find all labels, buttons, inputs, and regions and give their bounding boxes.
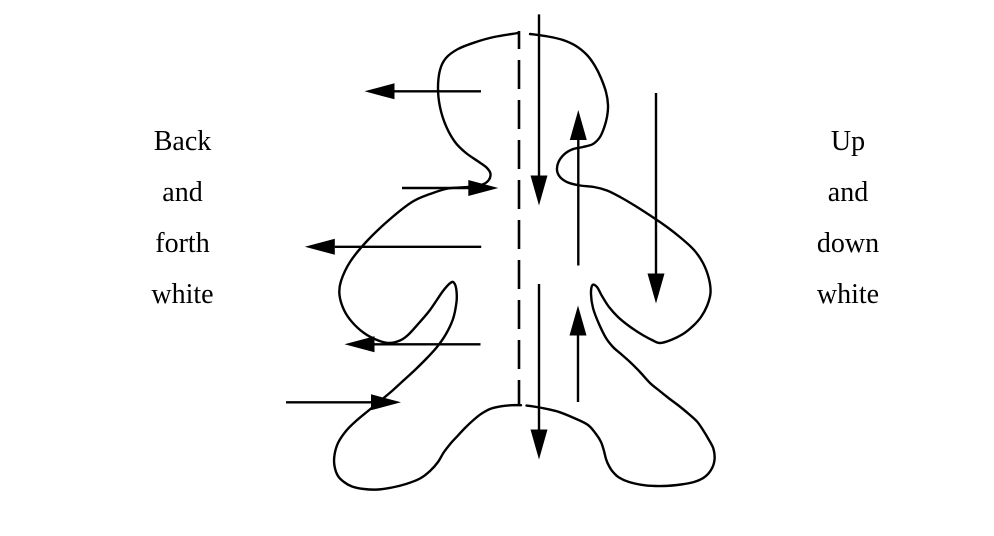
svg-text:down: down: [817, 228, 879, 259]
dashed midline: [518, 31, 521, 406]
arrow U1 up x=578: [570, 110, 587, 266]
svg-text:forth: forth: [155, 228, 209, 259]
svg-text:white: white: [151, 279, 213, 310]
arrow D1 down x=539: [531, 14, 548, 205]
figure outline right part: [527, 34, 715, 486]
svg-text:white: white: [817, 279, 879, 310]
svg-text:Up: Up: [831, 126, 865, 157]
arrow U2 up x=578: [570, 306, 587, 403]
arrow A2 right y=188: [402, 180, 498, 196]
arrow A4 left y=344.3: [345, 336, 481, 352]
arrow A1 left y=91: [365, 83, 482, 99]
svg-text:and: and: [828, 177, 868, 208]
figure outline: [334, 33, 521, 490]
arrow D3 down x=656: [648, 93, 665, 304]
svg-text:and: and: [162, 177, 202, 208]
arrow A5 right y=401.3: [286, 394, 401, 410]
svg-text:Back: Back: [154, 126, 212, 157]
arrow A3 left y=246.8: [305, 239, 481, 255]
arrow D2 down x=539: [531, 284, 548, 460]
